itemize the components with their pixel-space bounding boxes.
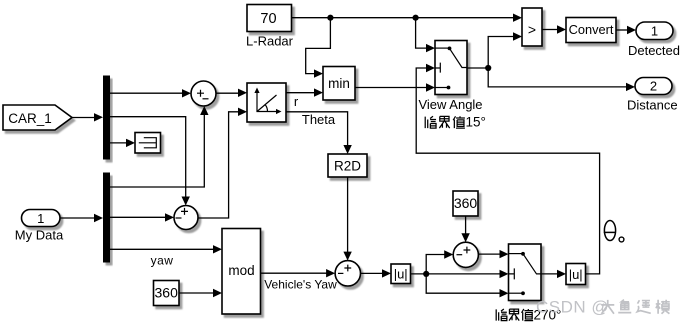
wire junction up to sum4 minus input xyxy=(426,250,453,274)
wire bar2 port1 up to sum1 minus input xyxy=(110,106,209,187)
constant block 360 (lower left) xyxy=(154,281,180,306)
svg-text:L-Radar: L-Radar xyxy=(246,34,294,49)
abs block 2 xyxy=(566,264,586,285)
wire abs1 to junction and switch2 input2 xyxy=(411,270,509,278)
svg-text:|u|: |u| xyxy=(394,267,408,282)
svg-text:15°: 15° xyxy=(466,115,486,130)
wire bar2 port3 (yaw) to mod input1 xyxy=(110,245,222,267)
wire R2D output down to sum3 plus input xyxy=(343,177,351,261)
cartesian to polar block xyxy=(247,83,286,122)
wire junction to min input1 xyxy=(306,18,331,78)
wire min output to switch1 input3 xyxy=(355,83,435,91)
wire sum1 to polar block input1 xyxy=(216,89,247,97)
constant block 70 (L-Radar) xyxy=(246,5,294,49)
wire 360b down to sum4 plus input xyxy=(461,216,469,242)
wire abs2 feedback to switch1 input2 xyxy=(416,64,599,274)
icon block (bus terminator) xyxy=(135,133,161,154)
wire polar r output to min input2 xyxy=(286,88,323,96)
output port 2 Distance xyxy=(627,78,678,113)
relational operator block > xyxy=(522,8,542,46)
wire bar2 port2 to sum2 minus input xyxy=(110,213,174,221)
output port 1 Detected xyxy=(628,22,680,58)
svg-text:|u|: |u| xyxy=(569,267,583,282)
svg-text:R2D: R2D xyxy=(334,159,361,174)
node junction on 70 wire (to min) xyxy=(327,15,333,21)
wire switch1 output to junction xyxy=(467,65,491,71)
theta degree annotation xyxy=(604,221,624,242)
demux bar1 xyxy=(103,76,110,160)
node junction on 70 wire (to switch input1) xyxy=(413,15,419,21)
abs block 1 xyxy=(391,264,411,284)
wire sum3 output to abs1 xyxy=(360,269,391,277)
sum block sum1 xyxy=(191,81,216,106)
sum block sum3 xyxy=(335,261,360,286)
svg-text:2: 2 xyxy=(650,79,657,94)
wire junction to switch1 input1 xyxy=(416,18,435,53)
svg-text:Theta: Theta xyxy=(302,112,336,127)
sum block sum4 xyxy=(453,242,478,267)
svg-text:yaw: yaw xyxy=(151,254,174,268)
wire 70 output to relational operator input1 xyxy=(292,14,523,22)
svg-text:1: 1 xyxy=(37,211,44,226)
wire sum2 output up to polar block input2 xyxy=(198,108,247,218)
R2D block xyxy=(328,154,367,177)
wire switch2 output to abs2 xyxy=(541,270,566,278)
wire Convert to output port 1 xyxy=(616,26,636,34)
math function block mod xyxy=(222,229,261,315)
svg-text:Convert: Convert xyxy=(569,22,614,37)
svg-text:360: 360 xyxy=(155,285,179,301)
switch block 临界值270 xyxy=(509,244,542,301)
sum block sum2 xyxy=(174,206,198,230)
wire CAR_1 to demux bar1 xyxy=(72,113,103,121)
svg-text:min: min xyxy=(328,76,350,91)
svg-text:Detected: Detected xyxy=(628,43,680,58)
input port 1 My Data xyxy=(15,210,64,243)
wire polar Theta output down to R2D xyxy=(286,112,352,154)
demux bar2 xyxy=(103,173,110,263)
label 临界值270° (drawn as vector strokes) xyxy=(496,309,533,321)
svg-text:r: r xyxy=(294,94,299,109)
wire 360 to mod input2 xyxy=(179,289,222,297)
wire junction up to relational operator input2 xyxy=(488,32,522,68)
min block xyxy=(323,67,355,101)
switch block View Angle xyxy=(418,41,482,113)
wire junction down to Distance output xyxy=(488,68,635,91)
data type conversion block Convert xyxy=(566,18,616,43)
wire bar1 port3 to terminator icon block xyxy=(110,139,135,147)
wire mod output (Vehicle's Yaw) to sum3 xyxy=(261,269,338,292)
From tag CAR_1 xyxy=(3,105,72,130)
svg-text:CSDN @: CSDN @ xyxy=(536,298,609,317)
wire bar1 port2 down to sum2 plus input xyxy=(110,117,190,206)
wire > output to Convert xyxy=(542,25,566,33)
svg-text:View Angle: View Angle xyxy=(418,97,482,112)
watermark CSDN @大鱼建模 xyxy=(536,298,670,317)
wire bar1 port1 to sum1 xyxy=(110,89,191,97)
label 临界值15° (drawn as vector strokes) xyxy=(425,116,465,128)
svg-text:Distance: Distance xyxy=(627,98,678,113)
wire My Data to demux bar2 xyxy=(60,214,103,222)
svg-text:360: 360 xyxy=(454,195,478,211)
svg-text:70: 70 xyxy=(260,11,276,27)
svg-text:Vehicle's Yaw: Vehicle's Yaw xyxy=(264,278,337,292)
wire sum4 output to switch2 input1 xyxy=(478,250,508,258)
wire junction down to switch2 input3 xyxy=(426,274,508,298)
svg-text:>: > xyxy=(528,22,536,38)
constant block 360 (upper) xyxy=(453,191,478,216)
svg-text:1: 1 xyxy=(651,24,658,39)
svg-text:mod: mod xyxy=(228,263,254,278)
svg-text:CAR_1: CAR_1 xyxy=(8,111,52,126)
svg-text:My Data: My Data xyxy=(15,228,64,243)
